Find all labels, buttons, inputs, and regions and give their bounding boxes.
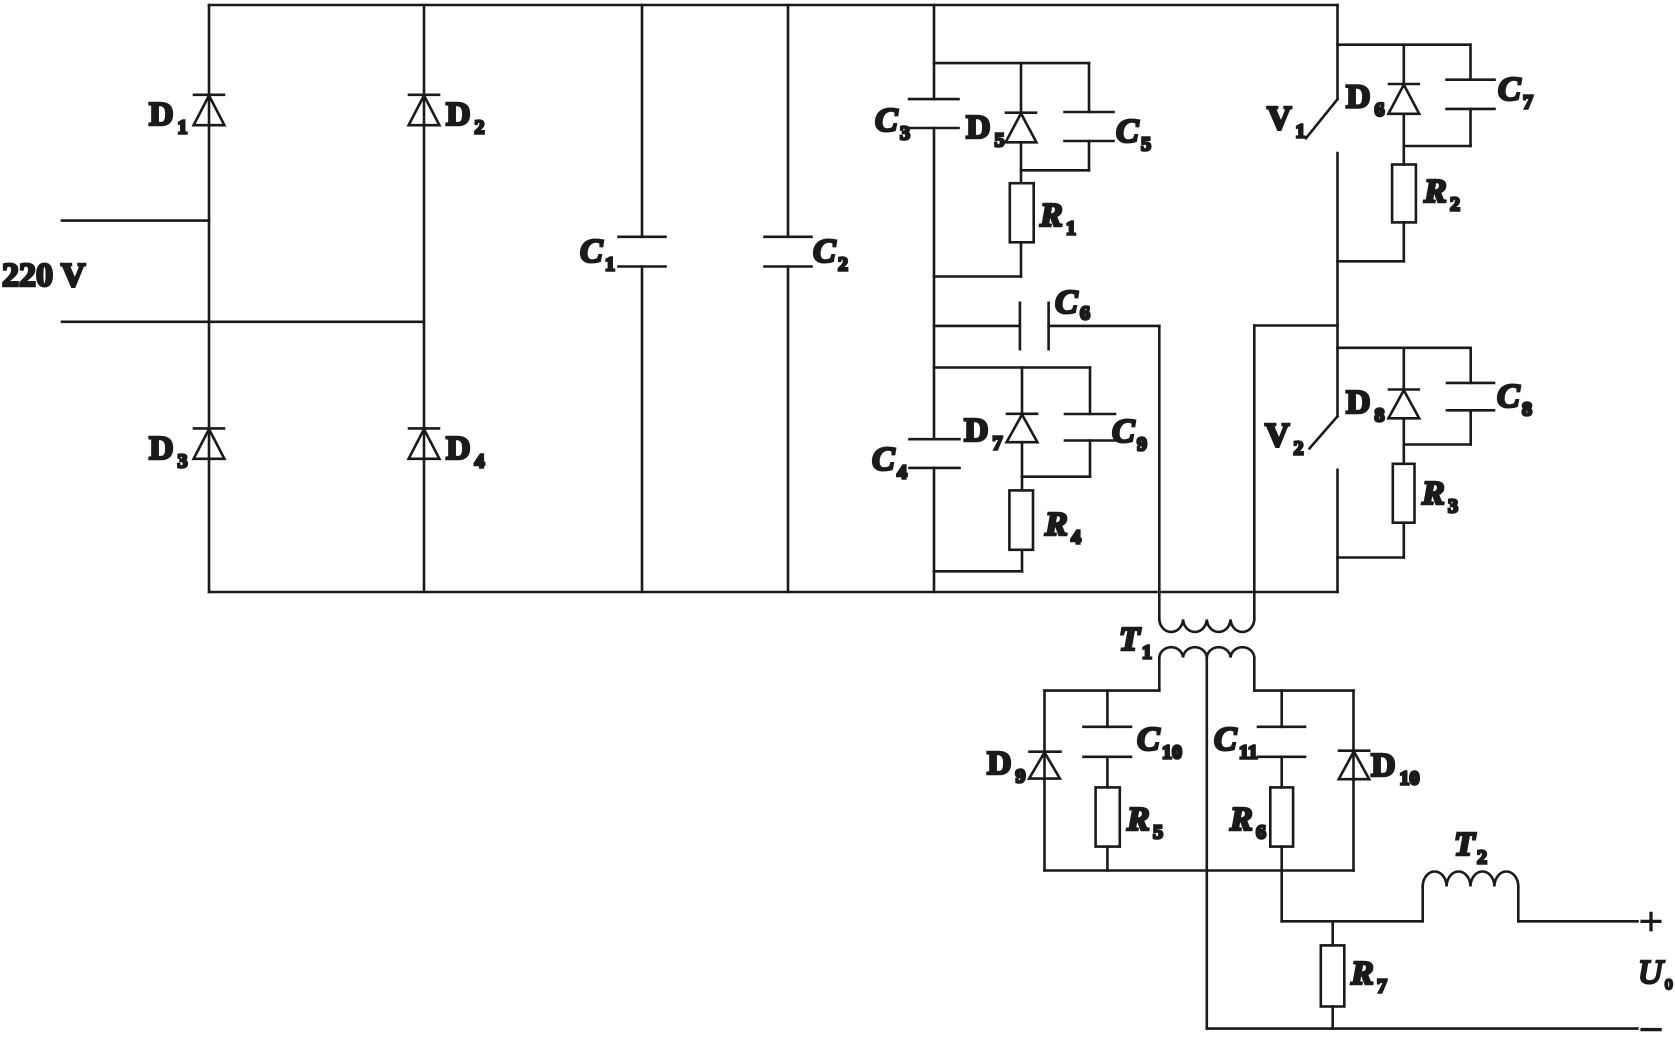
svg-text:D: D (446, 96, 471, 133)
wire R2 bottom lead (1403, 222, 1406, 261)
svg-text:6: 6 (1375, 99, 1385, 121)
svg-text:C: C (1116, 113, 1139, 150)
wire right rail lower segment (1336, 470, 1339, 592)
wire upper snubber box top (934, 62, 1089, 65)
transformer T1 secondary winding (1159, 647, 1254, 657)
svg-text:2: 2 (1477, 847, 1487, 869)
diode D3 (194, 428, 225, 458)
wire upper snubber box bottom (934, 275, 1021, 278)
svg-text:C: C (1055, 284, 1078, 321)
plus terminal (1642, 913, 1660, 929)
svg-text:C: C (1497, 378, 1520, 415)
transformer T1 primary winding (1159, 620, 1254, 632)
wire D5-C5 bottom link (1021, 169, 1089, 172)
svg-text:11: 11 (1239, 742, 1258, 764)
svg-text:4: 4 (1071, 527, 1081, 549)
svg-text:C: C (813, 233, 836, 270)
svg-text:5: 5 (1153, 822, 1163, 844)
svg-text:6: 6 (1080, 303, 1090, 325)
svg-text:8: 8 (1375, 405, 1385, 427)
wire secondary right terminal (1253, 658, 1256, 691)
svg-text:7: 7 (1377, 976, 1387, 998)
svg-text:0: 0 (1665, 977, 1673, 993)
resistor R3 (1393, 464, 1415, 523)
wire half-bridge midpoint tap (1254, 324, 1337, 327)
svg-text:7: 7 (993, 433, 1003, 455)
svg-text:2: 2 (475, 117, 485, 139)
svg-text:C: C (1498, 71, 1521, 108)
svg-text:C: C (1112, 413, 1135, 450)
wire snubber left rail (933, 5, 936, 592)
wire right rail middle segment (1336, 153, 1339, 416)
wire R4 bottom lead (1021, 550, 1024, 572)
svg-text:R: R (1039, 197, 1063, 234)
svg-text:R: R (1423, 173, 1447, 210)
wire R5 bottom lead (1106, 847, 1109, 871)
svg-text:C: C (872, 441, 895, 478)
wire R3 link to rail (1338, 556, 1404, 559)
svg-text:T: T (1454, 826, 1476, 863)
svg-text:D: D (964, 412, 989, 449)
resistor R4 (1009, 490, 1033, 549)
svg-text:D: D (446, 430, 471, 467)
wire D6-C7 bottom link (1404, 145, 1471, 148)
svg-text:1: 1 (1142, 642, 1152, 664)
capacitor C9 (1065, 368, 1115, 477)
svg-text:D: D (1346, 384, 1371, 421)
svg-text:9: 9 (1016, 766, 1026, 788)
wire D6 branch top (1338, 43, 1471, 46)
wire rectifier box bottom rail (1045, 869, 1354, 872)
wire D7-C9 bottom link (1022, 475, 1090, 478)
wire R1 bottom lead (1020, 242, 1023, 276)
svg-text:7: 7 (1523, 92, 1533, 114)
svg-text:5: 5 (995, 130, 1005, 152)
svg-text:10: 10 (1162, 742, 1182, 764)
svg-text:2: 2 (1450, 194, 1460, 216)
svg-text:6: 6 (1256, 822, 1266, 844)
wire output negative bus (1207, 1027, 1638, 1030)
svg-text:8: 8 (1522, 399, 1532, 421)
svg-text:D: D (966, 109, 991, 146)
svg-text:4: 4 (897, 462, 907, 484)
wire rectifier box top-right rail (1254, 689, 1353, 692)
capacitor C5 (1065, 63, 1114, 170)
wire D5 cathode stem (1020, 142, 1023, 183)
svg-text:R: R (1229, 801, 1253, 838)
diode D2 (409, 95, 440, 125)
resistor R7 (1321, 921, 1345, 1028)
capacitor C1 (619, 5, 666, 592)
resistor R6 (1270, 787, 1293, 846)
capacitor C8 (1447, 348, 1494, 445)
svg-text:220 V: 220 V (2, 257, 86, 294)
svg-text:V: V (1267, 100, 1292, 137)
wire D10 branch (1352, 691, 1355, 871)
diode D6 (1388, 84, 1419, 114)
svg-text:T: T (1119, 621, 1141, 658)
wire lower snubber box top (934, 366, 1090, 369)
wire D9 branch (1043, 691, 1046, 871)
svg-text:V: V (1265, 417, 1290, 454)
svg-text:R: R (1126, 801, 1150, 838)
svg-text:C: C (1214, 721, 1237, 758)
wire D6 cathode stem (1403, 114, 1406, 165)
wire AC input upper (62, 219, 209, 222)
wire D8-C8 bottom link (1404, 443, 1471, 446)
svg-text:1: 1 (1066, 218, 1076, 240)
wire left bridge rail (208, 5, 211, 592)
svg-text:R: R (1350, 955, 1374, 992)
svg-text:R: R (1044, 506, 1068, 543)
diode D5 (1006, 113, 1037, 143)
wire midpoint to primary right terminal (1253, 326, 1256, 620)
capacitor C6 (934, 303, 1159, 349)
switch V2 (1310, 416, 1338, 448)
svg-text:D: D (987, 745, 1012, 782)
svg-text:1: 1 (1296, 121, 1306, 143)
resistor R1 (1010, 183, 1034, 242)
capacitor C4 (910, 439, 960, 468)
svg-text:D: D (149, 430, 174, 467)
diode D7 (1007, 414, 1038, 442)
svg-text:D: D (1371, 747, 1396, 784)
wire second bridge rail (423, 5, 426, 592)
wire right rail upper segment (1336, 5, 1339, 99)
wire D5 anode stem (1020, 63, 1023, 113)
minus terminal (1642, 1028, 1660, 1031)
diode D9 (1029, 752, 1060, 779)
svg-text:D: D (1346, 79, 1371, 116)
switch V1 (1306, 99, 1338, 138)
wire output positive run to T2 (1282, 920, 1423, 923)
capacitor C2 (765, 5, 812, 592)
svg-text:10: 10 (1400, 768, 1420, 790)
wire bottom DC bus (209, 591, 1338, 594)
wire lower snubber box bottom (934, 570, 1022, 573)
capacitor C3 (909, 99, 959, 128)
diode D8 (1388, 390, 1419, 419)
svg-text:C: C (580, 233, 603, 270)
inductor T2 winding (1423, 872, 1519, 922)
svg-text:4: 4 (475, 451, 485, 473)
wire top DC bus (209, 4, 1338, 7)
wire R3 bottom lead (1403, 523, 1406, 558)
wire D7 anode stem (1021, 368, 1024, 415)
svg-text:3: 3 (178, 451, 188, 473)
resistor R2 (1392, 165, 1416, 223)
diode D10 (1339, 751, 1370, 780)
wire secondary left terminal (1158, 658, 1161, 691)
wire D8 cathode stem (1403, 418, 1406, 464)
wire secondary centre tap (1206, 658, 1209, 1029)
wire D6 anode stem (1403, 45, 1406, 85)
diode D4 (409, 428, 440, 458)
svg-text:5: 5 (1141, 134, 1151, 156)
svg-text:D: D (149, 96, 174, 133)
capacitor C11 (1258, 691, 1305, 788)
wire output positive to terminal (1518, 920, 1637, 923)
wire rectifier box top-left rail (1045, 689, 1160, 692)
wire D8 anode stem (1403, 348, 1406, 390)
capacitor C10 (1084, 691, 1132, 788)
svg-text:3: 3 (900, 123, 910, 145)
wire R6 bottom lead to output (1280, 847, 1283, 922)
svg-text:U: U (1638, 954, 1665, 991)
wire C6 to primary left terminal (1158, 326, 1161, 620)
capacitor C7 (1447, 45, 1495, 146)
svg-text:2: 2 (1294, 438, 1304, 460)
wire D8 branch top (1338, 346, 1471, 349)
wire D7 cathode stem (1021, 442, 1024, 490)
resistor R5 (1096, 787, 1120, 846)
svg-text:C: C (875, 102, 898, 139)
svg-text:C: C (1137, 721, 1160, 758)
svg-text:9: 9 (1137, 434, 1147, 456)
svg-text:1: 1 (605, 254, 615, 276)
wire AC input lower (62, 320, 424, 323)
svg-text:1: 1 (178, 117, 188, 139)
svg-text:3: 3 (1448, 496, 1458, 518)
diode D1 (194, 95, 225, 125)
wire R2 link to rail (1338, 260, 1404, 263)
svg-text:R: R (1421, 475, 1445, 512)
svg-text:2: 2 (838, 254, 848, 276)
